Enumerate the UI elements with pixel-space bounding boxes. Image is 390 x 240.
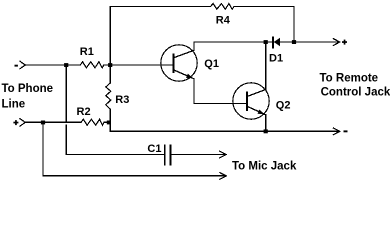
junction node R2 R3 bottom <box>107 121 111 125</box>
terminal chevron minus input <box>20 61 25 68</box>
resistor R1 <box>80 62 104 68</box>
junction node R1 left tap <box>64 63 68 67</box>
plus sign phone input <box>13 122 18 124</box>
Q2 circle <box>233 83 269 119</box>
capacitor C1 right plate <box>169 146 171 165</box>
wire C1 to mic arrow <box>170 154 225 156</box>
wire vertical minus to mic upper lower part <box>65 125 67 154</box>
wire Q1 emitter to Q2 base <box>194 103 247 105</box>
Q1 base bar <box>172 55 174 73</box>
Q2 collector diagonal <box>247 90 266 97</box>
wire vertical minus to mic upper <box>65 65 67 122</box>
junction node Q2 collector diode <box>264 40 268 44</box>
svg-text:To Remote: To Remote <box>320 73 379 85</box>
D1 triangle <box>274 38 280 47</box>
svg-text:Control Jack: Control Jack <box>321 86 390 98</box>
Q1 collector diagonal <box>174 50 195 58</box>
svg-text:R1: R1 <box>80 46 94 58</box>
wire R1 to Q1 base <box>104 64 174 66</box>
svg-text:Q1: Q1 <box>204 58 219 70</box>
D1 cathode bar <box>272 37 274 47</box>
svg-text:R4: R4 <box>216 15 231 27</box>
Q1 circle <box>161 45 197 81</box>
Q1 emitter arrowhead <box>186 74 193 79</box>
transistor Q1 <box>161 42 197 104</box>
wire left drop from top rail <box>109 7 111 84</box>
resistor R4 <box>210 4 234 10</box>
wire minus output rail <box>110 130 339 132</box>
wire right drop from top rail <box>293 7 295 43</box>
junction node Q2 emitter output <box>264 129 268 133</box>
resistor R2 <box>81 119 104 125</box>
junction node R1 right R3 top <box>108 63 112 67</box>
arrowhead upper mic <box>220 151 226 158</box>
wire minus phone line to R1 <box>25 64 80 66</box>
svg-text:R3: R3 <box>115 94 129 106</box>
Q2 emitter diagonal <box>247 106 266 114</box>
Q2 emitter arrowhead <box>258 110 265 115</box>
svg-text:Line: Line <box>2 99 26 111</box>
wire vertical plus to mic lower <box>42 122 44 175</box>
Q2 base bar <box>246 93 248 111</box>
wire top rail right segment <box>234 6 294 8</box>
junction node R4 diode rail <box>292 40 296 44</box>
junction node plus tap <box>41 121 45 125</box>
wire plus phone line to R2 <box>25 121 81 123</box>
transistor Q2 <box>233 42 269 131</box>
svg-text:To Phone: To Phone <box>2 83 54 95</box>
svg-text:Q2: Q2 <box>276 99 291 111</box>
minus sign phone input <box>15 65 18 67</box>
arrowhead minus output <box>333 128 339 135</box>
minus sign remote output <box>344 130 348 132</box>
Q2 emitter wire down <box>265 115 267 132</box>
resistor R3 <box>106 83 111 109</box>
wire R2 to R3 node <box>104 121 110 123</box>
wire R3 bottom to plus rail <box>109 109 111 122</box>
svg-text:C1: C1 <box>147 143 161 155</box>
wire upper mic line to C1 <box>66 154 165 156</box>
wire top rail left segment <box>110 6 210 8</box>
diode D1 <box>273 37 280 47</box>
Q1 collector wire up <box>193 42 195 50</box>
wire node down to minus output rail <box>109 122 111 131</box>
wire lower mic line <box>43 175 226 177</box>
arrowhead lower mic <box>220 173 226 180</box>
svg-text:D1: D1 <box>269 53 283 65</box>
svg-text:To Mic Jack: To Mic Jack <box>232 161 297 173</box>
svg-text:R2: R2 <box>77 106 91 118</box>
terminal chevron plus input <box>20 119 25 126</box>
arrowhead plus output <box>333 39 339 46</box>
Q2 collector wire up <box>265 42 267 90</box>
Q1 emitter diagonal <box>174 70 195 79</box>
wire diode rail <box>194 41 339 43</box>
plus sign remote output <box>342 41 347 43</box>
Q1 emitter wire down <box>193 79 195 104</box>
capacitor C1 left plate <box>164 146 166 165</box>
